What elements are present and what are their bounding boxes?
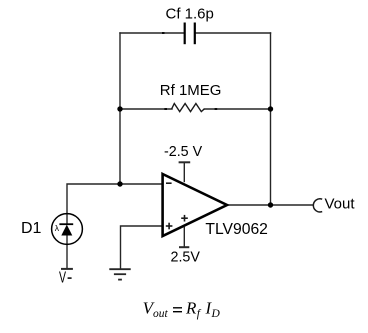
svg-text:2.5V: 2.5V — [171, 250, 201, 266]
svg-text:Vout: Vout — [325, 196, 356, 213]
svg-text:out: out — [153, 308, 169, 320]
svg-text:TLV9062: TLV9062 — [205, 221, 268, 238]
svg-text:V: V — [59, 268, 66, 286]
svg-text:R: R — [185, 298, 197, 317]
svg-text:D1: D1 — [21, 220, 42, 237]
svg-text:-2.5 V: -2.5 V — [164, 144, 203, 160]
svg-text:Cf 1.6p: Cf 1.6p — [166, 6, 214, 23]
svg-text:D: D — [211, 308, 221, 320]
svg-text:λ: λ — [55, 223, 60, 233]
svg-text:Rf 1MEG: Rf 1MEG — [160, 82, 222, 99]
